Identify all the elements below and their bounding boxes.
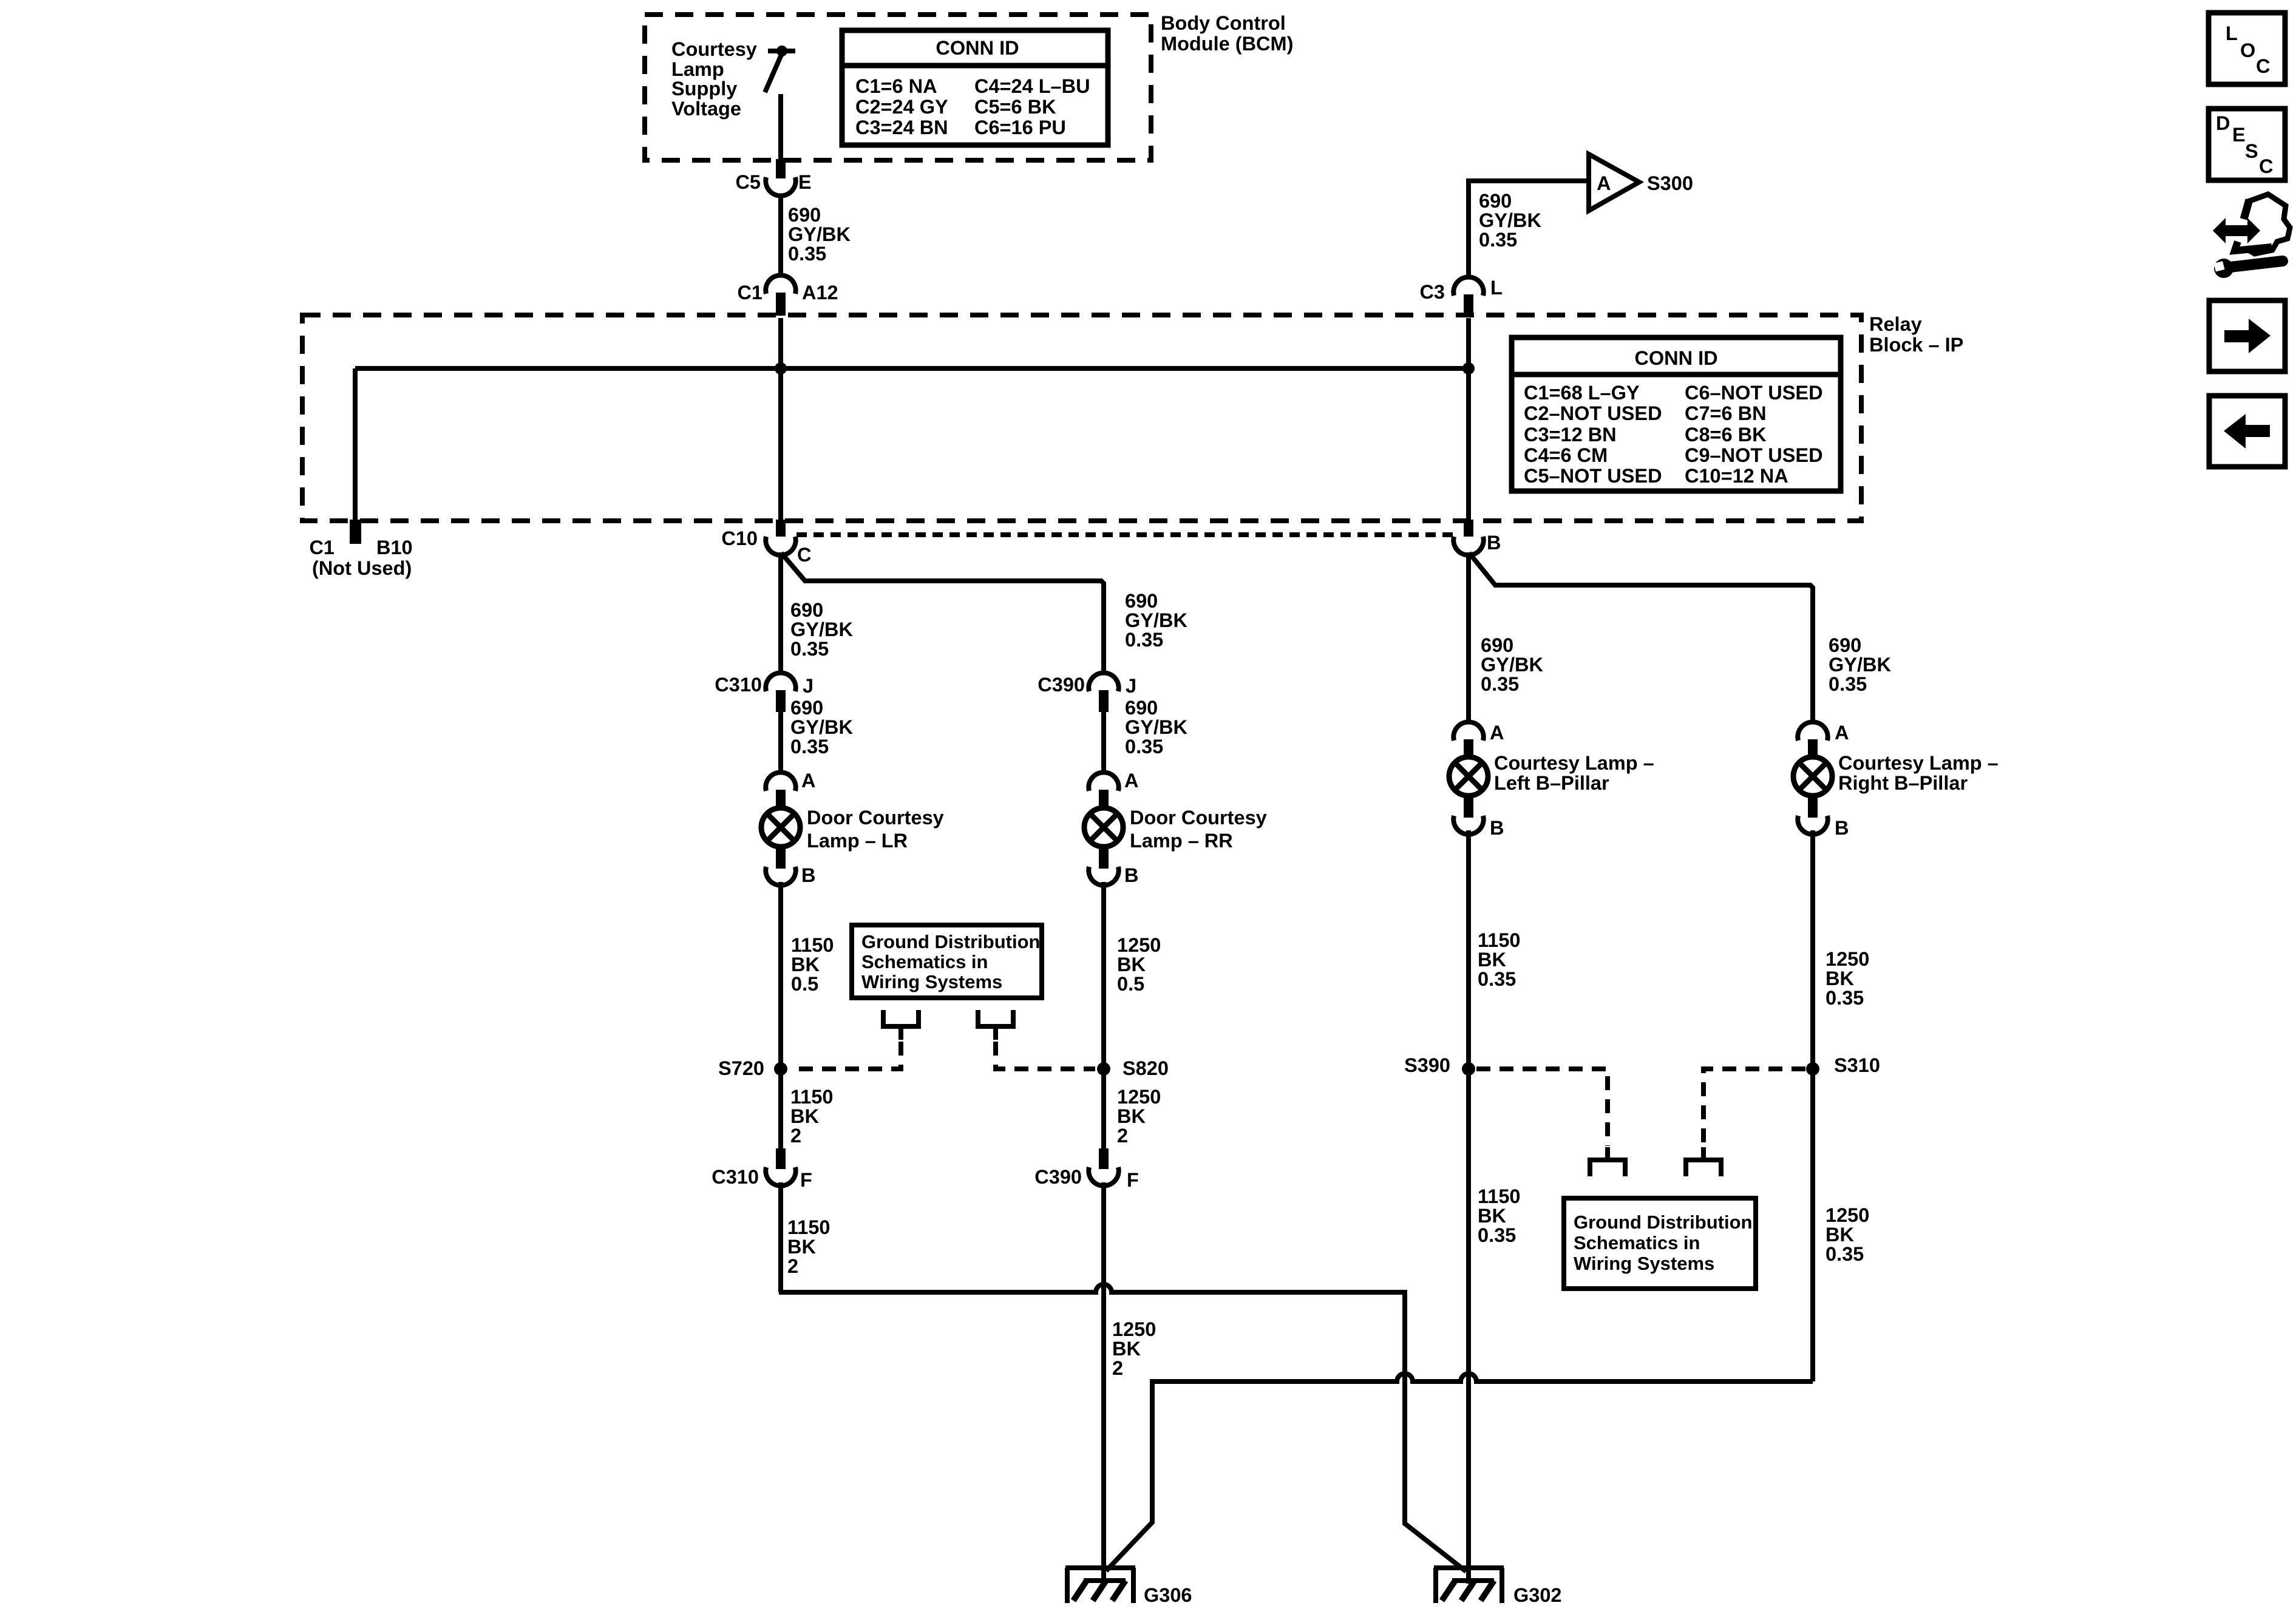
lamp: Courtesy Lamp - Right B-Pillar: [1793, 752, 1999, 796]
icon: connector repair (double arrow, terminal, wrench): [2213, 194, 2290, 278]
bracket ref 3 (above right ground box): [1605, 1147, 1610, 1160]
connector C5 pin E (BCM bottom): [735, 159, 811, 196]
box: Ground Distribution Schematics in Wiring Systems (left): [852, 925, 1042, 998]
wire: branch from C10 to C390 column: [781, 553, 1104, 674]
svg-text:C: C: [2256, 55, 2270, 77]
wire: 690 GY/BK 0.35 C310J to lamp LR: [778, 712, 783, 773]
svg-text:E: E: [2232, 124, 2246, 146]
svg-text:0.35: 0.35: [1479, 229, 1517, 251]
svg-text:C3=12 BN: C3=12 BN: [1524, 424, 1617, 446]
svg-text:(Not Used): (Not Used): [312, 557, 412, 579]
svg-text:690: 690: [1479, 190, 1512, 212]
svg-text:1250: 1250: [1112, 1318, 1156, 1340]
svg-text:B: B: [1490, 817, 1504, 839]
svg-text:690: 690: [1829, 634, 1861, 656]
svg-text:2: 2: [1112, 1357, 1123, 1379]
svg-text:F: F: [800, 1169, 812, 1191]
svg-text:690: 690: [1125, 697, 1158, 719]
svg-text:C1: C1: [309, 537, 335, 558]
wire: C10 main drop: [778, 552, 783, 674]
bracket ref 4 (above right ground box): [1701, 1147, 1706, 1160]
lamp: Door Courtesy Lamp - LR: [761, 807, 944, 852]
connector pin B (left b-pillar lamp): [1453, 797, 1504, 839]
svg-text:C9–NOT USED: C9–NOT USED: [1685, 444, 1823, 466]
wire: lamp LR pin B down to S720: [778, 882, 783, 1148]
svg-text:Supply: Supply: [671, 78, 737, 100]
wire: 690 GY/BK 0.35 C390J to lamp RR: [1101, 712, 1106, 773]
svg-text:C4=6 CM: C4=6 CM: [1524, 444, 1608, 466]
switch: courtesy lamp supply (inside BCM): [765, 46, 795, 160]
svg-text:1150: 1150: [1478, 1185, 1521, 1207]
svg-text:C1: C1: [737, 282, 763, 303]
svg-text:1150: 1150: [787, 1216, 830, 1238]
svg-text:C7=6 BN: C7=6 BN: [1685, 402, 1767, 424]
svg-text:BK: BK: [790, 1105, 819, 1127]
dashed link S310 to bracket 4: [1703, 1069, 1805, 1146]
ground G306: [1065, 1568, 1192, 1606]
svg-text:BK: BK: [1826, 968, 1854, 989]
svg-text:Schematics in: Schematics in: [861, 951, 988, 972]
svg-text:Courtesy Lamp –: Courtesy Lamp –: [1838, 752, 1999, 774]
splice S820: [1097, 1062, 1110, 1076]
svg-text:L: L: [1490, 277, 1503, 299]
svg-text:J: J: [1126, 675, 1136, 697]
connector pin A (lamp RR): [1089, 770, 1138, 809]
svg-text:Courtesy: Courtesy: [671, 38, 757, 60]
svg-text:A12: A12: [802, 282, 838, 303]
splice S310: [1806, 1062, 1819, 1076]
svg-text:0.5: 0.5: [791, 973, 818, 995]
svg-text:S390: S390: [1404, 1054, 1450, 1076]
svg-text:2: 2: [787, 1255, 798, 1277]
svg-text:C5: C5: [735, 171, 761, 193]
svg-text:1150: 1150: [1478, 929, 1521, 951]
svg-text:C2–NOT USED: C2–NOT USED: [1524, 402, 1662, 424]
dashed link bracket2 to S820: [996, 1042, 1095, 1069]
splice S720: [774, 1062, 787, 1076]
svg-text:C2=24 GY: C2=24 GY: [855, 96, 948, 118]
svg-text:0.35: 0.35: [1478, 968, 1516, 990]
svg-text:0.35: 0.35: [790, 736, 829, 758]
svg-text:C4=24 L–BU: C4=24 L–BU: [974, 75, 1090, 97]
connector C310 pin J: [715, 673, 813, 712]
svg-text:2: 2: [790, 1125, 801, 1147]
svg-text:C8=6 BK: C8=6 BK: [1685, 424, 1767, 446]
wire: relay internal drop to C1 B10: [353, 368, 358, 521]
svg-text:C10=12 NA: C10=12 NA: [1685, 465, 1788, 487]
wire: lamp RR pin B down to S820: [1101, 882, 1106, 1148]
wire: lower horizontal ground run from G306 drop to S310 wire (hops twice): [1106, 1374, 1813, 1571]
svg-text:0.35: 0.35: [790, 638, 829, 660]
connector pin A (right b-pillar lamp): [1798, 722, 1849, 759]
svg-text:Module (BCM): Module (BCM): [1161, 33, 1293, 55]
svg-text:D: D: [2216, 112, 2230, 134]
svg-text:S720: S720: [718, 1057, 764, 1079]
svg-text:0.35: 0.35: [788, 243, 826, 265]
svg-text:1250: 1250: [1117, 934, 1161, 956]
svg-text:1250: 1250: [1117, 1086, 1161, 1108]
wire: left b-pillar lamp B down to S390 and G302: [1466, 830, 1471, 1584]
svg-text:GY/BK: GY/BK: [790, 716, 853, 738]
module: Body Control Module (BCM) dashed box: [645, 15, 1151, 160]
svg-text:BK: BK: [1112, 1338, 1141, 1360]
ground G302: [1434, 1568, 1562, 1606]
svg-text:Body Control: Body Control: [1161, 12, 1286, 34]
svg-text:C3: C3: [1419, 281, 1445, 303]
wire: 690 GY/BK 0.35 from C5 to C1: [778, 195, 783, 276]
svg-text:A: A: [1835, 722, 1849, 744]
svg-text:G306: G306: [1144, 1584, 1192, 1606]
svg-text:B: B: [1835, 817, 1849, 839]
svg-text:C1=6 NA: C1=6 NA: [855, 75, 937, 97]
connector pin B (lamp RR): [1089, 848, 1138, 886]
svg-text:Door Courtesy: Door Courtesy: [1130, 807, 1267, 829]
svg-text:B: B: [1124, 864, 1138, 886]
svg-text:BK: BK: [787, 1236, 816, 1258]
table: Relay Block CONN ID: [1512, 337, 1841, 491]
svg-text:0.35: 0.35: [1125, 629, 1163, 651]
svg-text:0.35: 0.35: [1125, 736, 1163, 758]
svg-text:A: A: [1490, 722, 1504, 744]
wire: relay block internal horizontal bus: [355, 366, 1469, 371]
icon: back arrow box: [2209, 396, 2285, 467]
bracket ref 2 (below left ground box): [978, 1010, 1013, 1026]
svg-text:1250: 1250: [1826, 948, 1869, 970]
connector C3 pin L (relay block top): [1419, 277, 1502, 316]
wire: right b-pillar lamp B down to S310: [1810, 830, 1815, 1381]
connector pin B (right b-pillar lamp): [1798, 797, 1849, 839]
svg-text:Ground Distribution: Ground Distribution: [861, 931, 1040, 952]
svg-text:Voltage: Voltage: [671, 98, 741, 120]
svg-text:GY/BK: GY/BK: [788, 223, 851, 245]
svg-text:Wiring Systems: Wiring Systems: [1574, 1253, 1714, 1274]
svg-text:1250: 1250: [1826, 1204, 1869, 1226]
connector B (relay block bottom right): [1453, 520, 1501, 555]
svg-text:0.35: 0.35: [1481, 673, 1519, 695]
svg-text:C390: C390: [1034, 1166, 1082, 1188]
svg-text:GY/BK: GY/BK: [1479, 209, 1541, 231]
svg-text:C5=6 BK: C5=6 BK: [974, 96, 1056, 118]
svg-text:B: B: [801, 864, 815, 886]
connector C310 pin F: [712, 1148, 812, 1191]
svg-text:GY/BK: GY/BK: [1481, 654, 1543, 676]
table: BCM CONN ID: [842, 30, 1108, 145]
svg-text:GY/BK: GY/BK: [1125, 716, 1187, 738]
connector C10 pin C (relay block bottom): [721, 520, 811, 566]
svg-text:Schematics in: Schematics in: [1574, 1232, 1700, 1253]
icon: next arrow box: [2209, 300, 2285, 371]
svg-text:C: C: [797, 544, 811, 566]
wire: 1150 BK 2 from C310 F to ground run: [778, 1182, 783, 1292]
svg-text:L: L: [2226, 22, 2238, 44]
svg-text:J: J: [803, 675, 813, 697]
connector C1 pin B10 (Not Used): [309, 520, 412, 579]
svg-text:BK: BK: [1478, 1205, 1506, 1227]
svg-text:G302: G302: [1513, 1584, 1562, 1606]
svg-text:690: 690: [790, 599, 823, 621]
svg-text:Right B–Pillar: Right B–Pillar: [1838, 772, 1968, 794]
icon: LOC box: [2209, 13, 2285, 84]
svg-text:C310: C310: [715, 674, 762, 696]
svg-text:0.35: 0.35: [1478, 1224, 1516, 1246]
svg-text:CONN ID: CONN ID: [1634, 347, 1717, 369]
svg-text:GY/BK: GY/BK: [790, 619, 853, 640]
wire: 690 GY/BK 0.35 to S300: [1469, 181, 1586, 278]
svg-text:690: 690: [788, 204, 821, 226]
svg-text:BK: BK: [1117, 1105, 1146, 1127]
svg-text:Block – IP: Block – IP: [1869, 334, 1963, 356]
svg-text:B10: B10: [376, 537, 413, 558]
svg-text:A: A: [1124, 770, 1138, 792]
svg-text:Door Courtesy: Door Courtesy: [807, 807, 944, 829]
svg-text:BK: BK: [791, 954, 820, 975]
svg-text:Courtesy Lamp –: Courtesy Lamp –: [1494, 752, 1654, 774]
svg-text:S300: S300: [1647, 172, 1693, 194]
connector C390 pin F: [1034, 1148, 1139, 1191]
wire: relay internal vertical C3 to B: [1466, 318, 1471, 521]
wire: relay block internal vertical from C1 A12 to C10: [778, 318, 783, 521]
splice S390: [1462, 1062, 1475, 1076]
svg-text:Left B–Pillar: Left B–Pillar: [1494, 772, 1609, 794]
bracket ref 1 (below left ground box): [883, 1010, 919, 1026]
svg-text:690: 690: [790, 697, 823, 719]
svg-text:A: A: [801, 770, 815, 792]
lamp: Courtesy Lamp - Left B-Pillar: [1449, 752, 1654, 796]
svg-text:C10: C10: [721, 527, 758, 549]
svg-text:C: C: [2259, 155, 2273, 177]
svg-text:C5–NOT USED: C5–NOT USED: [1524, 465, 1662, 487]
wire: relay B main drop to left b-pillar lamp: [1466, 552, 1471, 724]
svg-text:Lamp – RR: Lamp – RR: [1130, 830, 1233, 852]
svg-text:GY/BK: GY/BK: [1829, 654, 1891, 676]
svg-text:Relay: Relay: [1869, 313, 1922, 335]
svg-text:C310: C310: [712, 1166, 759, 1188]
svg-text:C6–NOT USED: C6–NOT USED: [1685, 382, 1823, 404]
connector C1 pin A12 (relay block top): [737, 275, 838, 316]
splice reference S300 arrow pin A: [1589, 154, 1693, 211]
svg-text:690: 690: [1481, 634, 1513, 656]
svg-text:O: O: [2240, 39, 2255, 61]
svg-text:BK: BK: [1826, 1224, 1854, 1246]
svg-text:2: 2: [1117, 1125, 1128, 1147]
module: Relay Block - IP dashed box: [302, 315, 1861, 521]
svg-text:S310: S310: [1834, 1054, 1880, 1076]
svg-text:C3=24 BN: C3=24 BN: [855, 117, 948, 138]
svg-text:C390: C390: [1038, 674, 1085, 696]
dotted continuation line from C10 to B: [796, 532, 1453, 537]
box: Ground Distribution Schematics in Wiring Systems (right): [1564, 1198, 1756, 1289]
svg-text:E: E: [798, 171, 812, 193]
svg-text:0.35: 0.35: [1826, 987, 1864, 1009]
connector pin A (left b-pillar lamp): [1453, 722, 1504, 759]
wire: diagonal from relay B to right b-pillar branch: [1469, 553, 1813, 724]
svg-text:S820: S820: [1123, 1057, 1169, 1079]
svg-text:0.35: 0.35: [1829, 673, 1867, 695]
svg-text:0.35: 0.35: [1826, 1243, 1864, 1265]
svg-text:690: 690: [1125, 590, 1158, 612]
svg-text:A: A: [1597, 172, 1611, 194]
svg-text:Wiring Systems: Wiring Systems: [861, 971, 1002, 992]
svg-text:C6=16 PU: C6=16 PU: [974, 117, 1066, 138]
svg-text:S: S: [2245, 140, 2258, 162]
dashed link S390 to bracket 3: [1476, 1069, 1608, 1146]
dashed link bracket1 to S720: [790, 1042, 901, 1069]
svg-text:0.5: 0.5: [1117, 973, 1144, 995]
junction at A12 wire: [775, 362, 787, 375]
junction at C3 wire: [1462, 362, 1475, 375]
svg-text:1150: 1150: [790, 1086, 834, 1108]
icon: DESC box: [2209, 109, 2285, 180]
svg-text:BK: BK: [1117, 954, 1146, 975]
svg-text:F: F: [1127, 1169, 1139, 1191]
svg-text:CONN ID: CONN ID: [936, 37, 1019, 59]
svg-text:Lamp – LR: Lamp – LR: [807, 830, 908, 852]
connector pin B (lamp LR): [766, 848, 815, 886]
svg-text:BK: BK: [1478, 949, 1506, 971]
lamp: Door Courtesy Lamp - RR: [1084, 807, 1267, 852]
svg-text:GY/BK: GY/BK: [1125, 609, 1187, 631]
svg-text:1150: 1150: [791, 934, 834, 956]
svg-text:Lamp: Lamp: [671, 58, 724, 80]
wire: horizontal ground run (hops over C390 wire) to G302 drop: [779, 1284, 1466, 1571]
wire: 1250 BK 2 from C390 F straight down to G306: [1101, 1182, 1106, 1584]
svg-text:C1=68 L–GY: C1=68 L–GY: [1524, 382, 1640, 404]
connector C390 pin J: [1038, 673, 1136, 712]
svg-text:B: B: [1487, 532, 1501, 554]
connector pin A (lamp LR): [766, 770, 815, 809]
svg-text:Ground Distribution: Ground Distribution: [1574, 1212, 1752, 1233]
